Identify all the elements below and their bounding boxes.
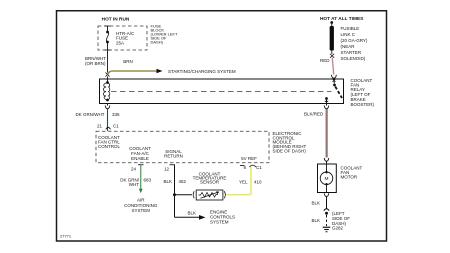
svg-text:RED: RED (320, 58, 330, 63)
svg-text:COOLANT: COOLANT (129, 146, 151, 151)
svg-text:410: 410 (254, 180, 262, 185)
svg-text:ENGINE: ENGINE (210, 210, 227, 215)
svg-text:C1: C1 (256, 165, 262, 170)
svg-text:SOLENOID): SOLENOID) (341, 56, 366, 61)
svg-text:BRN/WHT: BRN/WHT (85, 56, 106, 61)
svg-text:27771: 27771 (60, 234, 72, 239)
svg-text:5V REF: 5V REF (241, 156, 257, 161)
svg-text:RETURN: RETURN (164, 154, 183, 159)
svg-text:BRAKE: BRAKE (351, 97, 366, 102)
svg-text:(20 GA-GRY): (20 GA-GRY) (341, 38, 368, 43)
svg-text:SIDE OF DASH): SIDE OF DASH) (273, 149, 307, 154)
svg-text:ENABLE: ENABLE (131, 156, 149, 161)
svg-text:STARTING/CHARGING SYSTEM: STARTING/CHARGING SYSTEM (168, 69, 236, 74)
svg-text:BLK: BLK (311, 218, 320, 223)
svg-text:21: 21 (97, 124, 103, 129)
svg-text:FUSE: FUSE (116, 36, 128, 41)
svg-text:BLK/RED: BLK/RED (304, 112, 324, 117)
svg-text:M: M (325, 176, 329, 182)
svg-text:BLK: BLK (187, 211, 196, 216)
svg-text:LINK C: LINK C (341, 32, 356, 37)
svg-text:SYSTEM: SYSTEM (131, 208, 150, 213)
svg-text:(LEFT: (LEFT (332, 211, 345, 216)
svg-text:683: 683 (144, 178, 152, 183)
svg-text:CONTROL: CONTROL (98, 144, 120, 149)
svg-text:FUSIBLE: FUSIBLE (341, 26, 360, 31)
svg-text:MOTOR: MOTOR (341, 175, 358, 180)
svg-text:(LEFT OF: (LEFT OF (351, 92, 371, 97)
svg-text:HTR-A/C: HTR-A/C (116, 31, 135, 36)
svg-text:DASH): DASH) (151, 40, 164, 45)
svg-text:AIR: AIR (137, 198, 145, 203)
svg-text:HOT AT ALL TIMES: HOT AT ALL TIMES (320, 16, 363, 22)
svg-text:SYSTEM: SYSTEM (210, 220, 229, 225)
svg-text:CONDITIONING: CONDITIONING (124, 203, 158, 208)
svg-text:SIDE OF: SIDE OF (332, 216, 350, 221)
svg-text:DK GRN/WHT: DK GRN/WHT (76, 112, 105, 117)
svg-text:STARTER: STARTER (341, 50, 362, 55)
svg-text:CONTROLS: CONTROLS (210, 215, 235, 220)
svg-text:SENSOR: SENSOR (200, 180, 220, 185)
svg-text:(NEAR: (NEAR (341, 44, 356, 49)
svg-text:WHT: WHT (129, 182, 139, 187)
svg-text:335: 335 (112, 112, 120, 117)
svg-text:HOT IN RUN: HOT IN RUN (102, 17, 130, 23)
svg-text:BOOSTER): BOOSTER) (351, 102, 375, 107)
svg-text:12: 12 (164, 167, 170, 172)
svg-text:G282: G282 (332, 226, 344, 231)
svg-text:RELAY: RELAY (351, 87, 365, 92)
svg-text:BLK: BLK (163, 179, 172, 184)
svg-text:24: 24 (131, 167, 137, 172)
svg-text:BLK: BLK (311, 201, 320, 206)
svg-text:FAN-A/C: FAN-A/C (131, 151, 150, 156)
svg-text:25A: 25A (116, 40, 124, 45)
svg-text:(OR BRN): (OR BRN) (85, 61, 106, 66)
svg-text:C1: C1 (113, 124, 119, 129)
svg-text:YEL: YEL (239, 180, 248, 185)
svg-text:BRN: BRN (123, 59, 133, 64)
svg-text:452: 452 (179, 179, 187, 184)
